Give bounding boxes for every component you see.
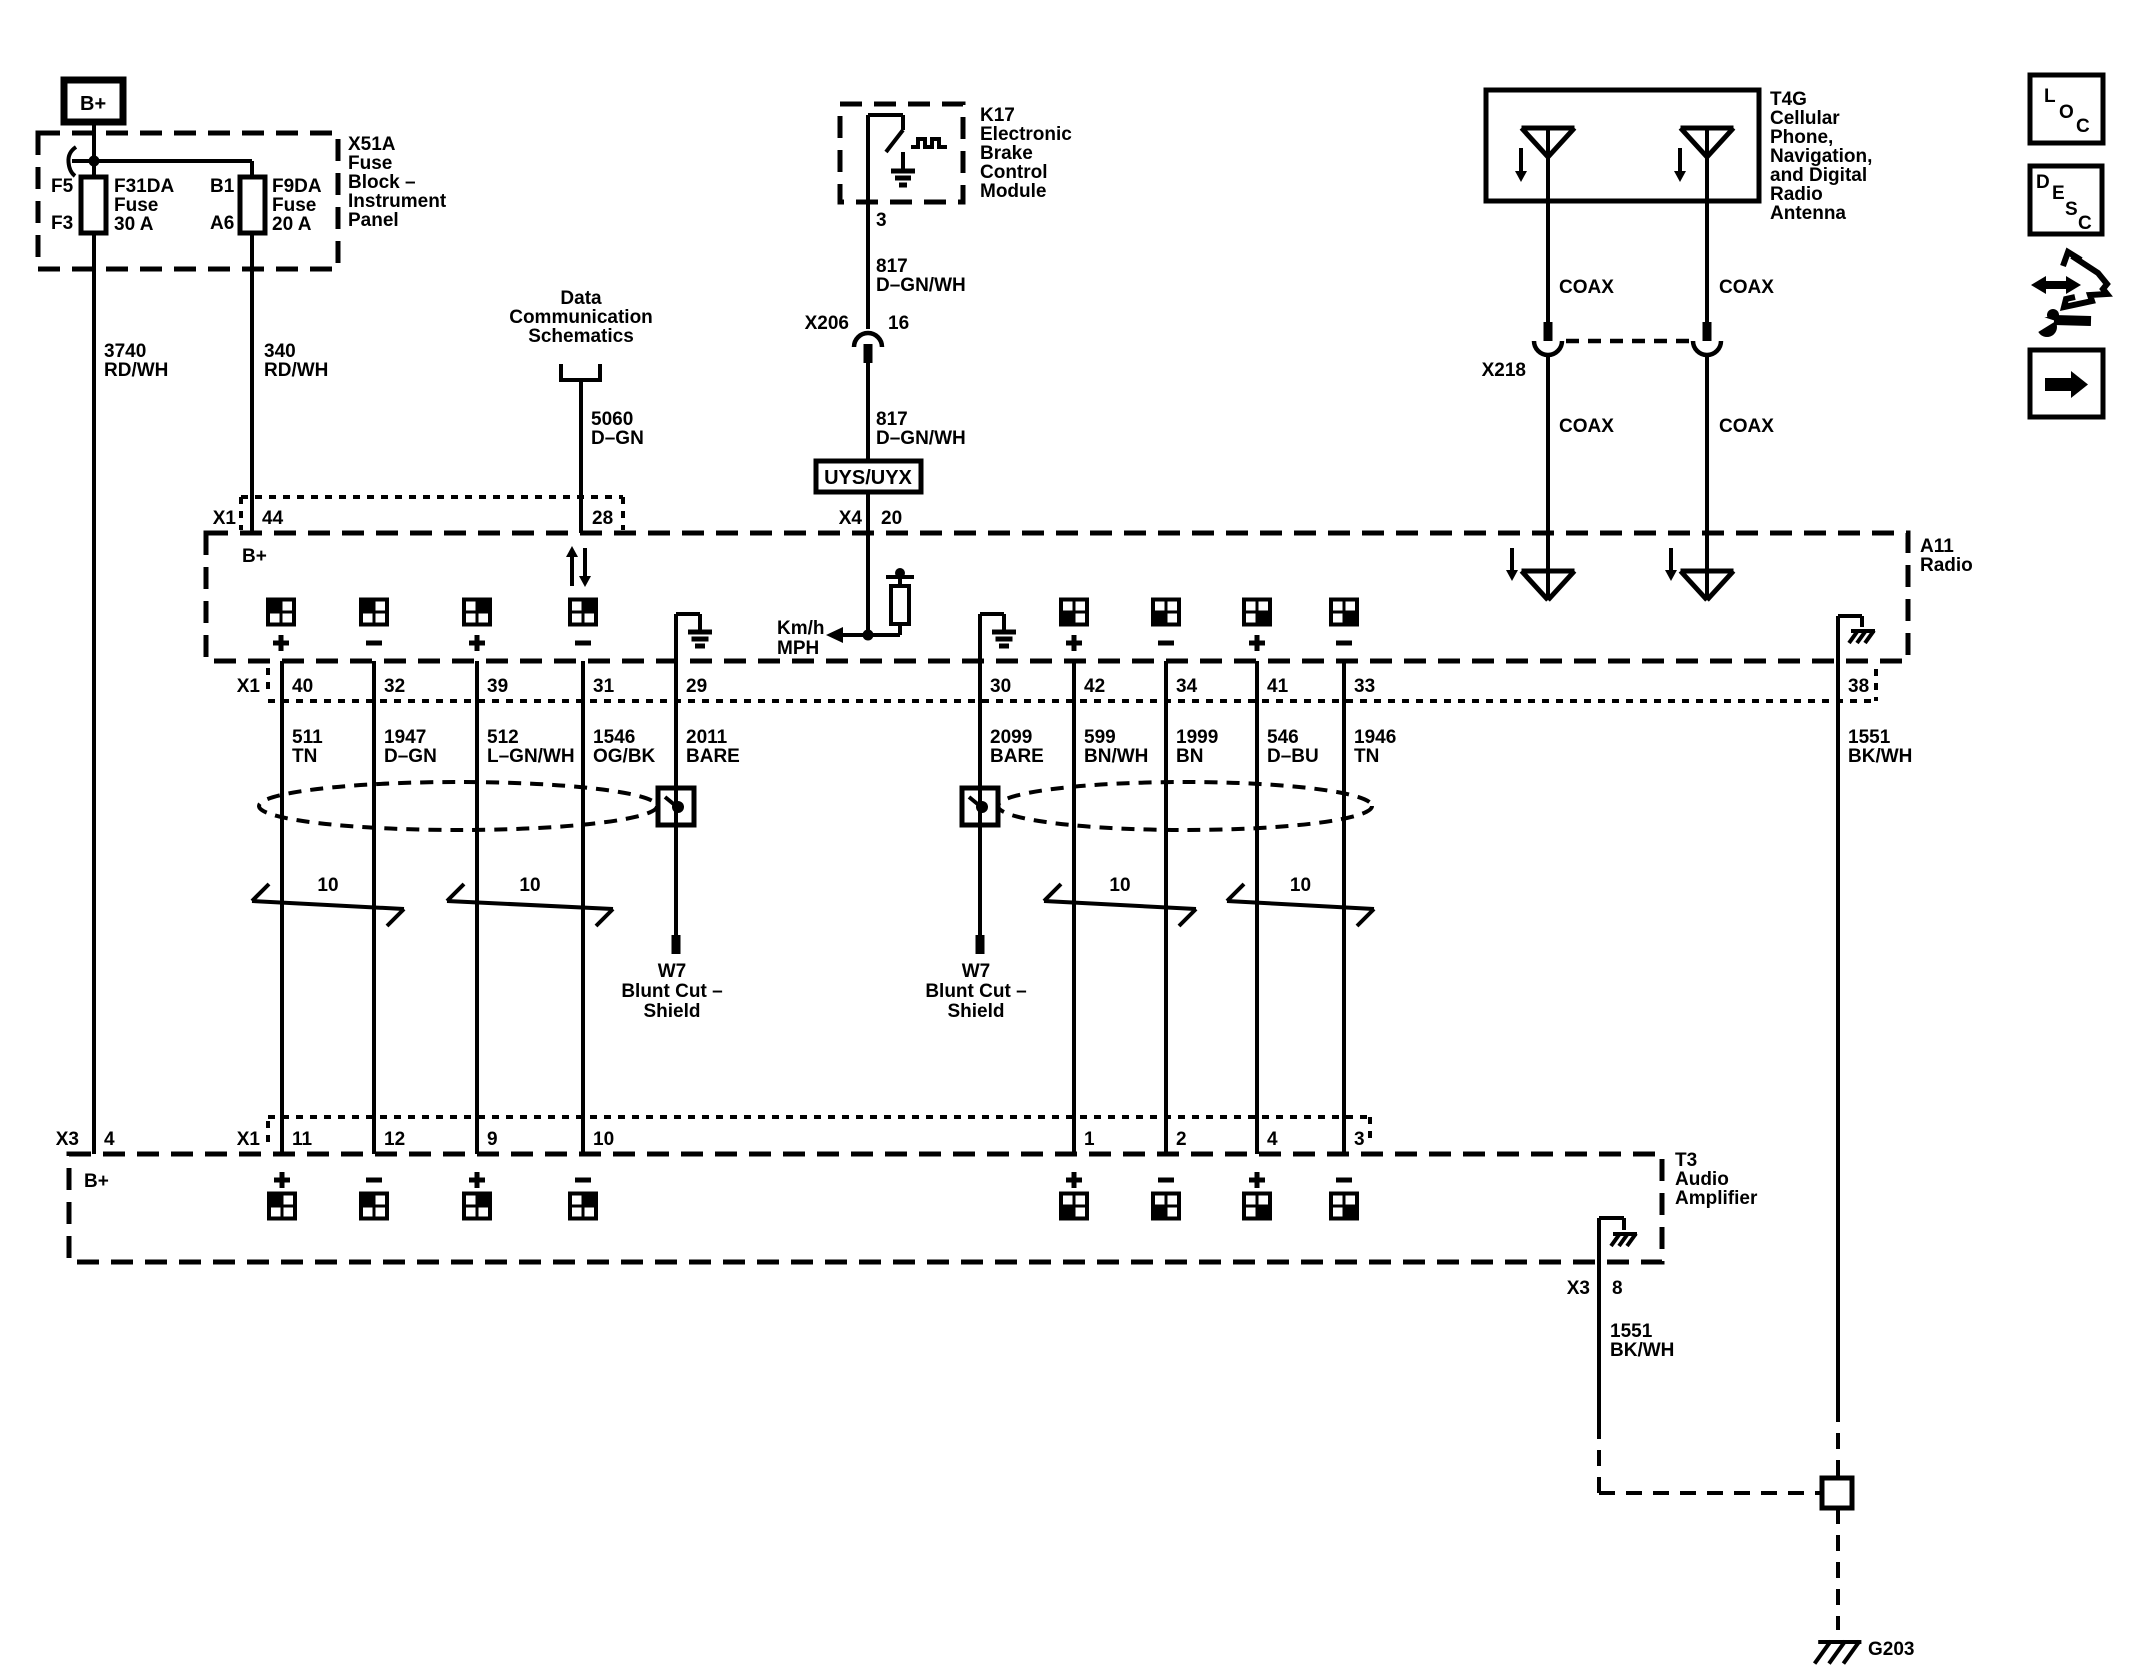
svg-text:Radio: Radio: [1770, 184, 1823, 205]
svg-text:D–GN/WH: D–GN/WH: [876, 428, 966, 449]
svg-text:COAX: COAX: [1559, 277, 1614, 298]
svg-text:COAX: COAX: [1559, 416, 1614, 437]
svg-text:C: C: [2076, 116, 2090, 137]
svg-text:1999: 1999: [1176, 727, 1218, 748]
svg-text:44: 44: [262, 508, 284, 529]
svg-text:32: 32: [384, 676, 405, 697]
svg-text:1551: 1551: [1848, 727, 1891, 748]
svg-text:29: 29: [686, 676, 707, 697]
svg-text:RD/WH: RD/WH: [104, 360, 168, 381]
svg-text:20: 20: [881, 508, 902, 529]
svg-text:D–GN: D–GN: [384, 746, 437, 767]
svg-text:2099: 2099: [990, 727, 1032, 748]
svg-text:8: 8: [1612, 1278, 1623, 1299]
svg-text:Module: Module: [980, 181, 1047, 202]
svg-text:K17: K17: [980, 105, 1015, 126]
svg-text:4: 4: [1267, 1129, 1278, 1150]
svg-text:Cellular: Cellular: [1770, 108, 1840, 129]
svg-text:A6: A6: [210, 213, 234, 234]
svg-text:BK/WH: BK/WH: [1610, 1340, 1674, 1361]
svg-text:Shield: Shield: [947, 1001, 1004, 1022]
svg-text:Panel: Panel: [348, 210, 399, 231]
svg-text:Audio: Audio: [1675, 1169, 1729, 1190]
svg-text:W7: W7: [962, 961, 991, 982]
svg-text:A11: A11: [1920, 536, 1954, 557]
svg-text:UYS/UYX: UYS/UYX: [824, 467, 912, 489]
svg-text:Instrument: Instrument: [348, 191, 447, 212]
svg-text:X218: X218: [1482, 360, 1526, 381]
svg-text:1551: 1551: [1610, 1321, 1653, 1342]
svg-text:C: C: [2078, 213, 2092, 234]
svg-text:Communication: Communication: [509, 307, 653, 328]
svg-text:Antenna: Antenna: [1770, 203, 1846, 224]
svg-text:D–BU: D–BU: [1267, 746, 1319, 767]
svg-text:340: 340: [264, 341, 296, 362]
svg-text:T3: T3: [1675, 1150, 1697, 1171]
svg-text:X1: X1: [213, 508, 237, 529]
svg-text:817: 817: [876, 409, 908, 430]
svg-text:39: 39: [487, 676, 508, 697]
svg-text:11: 11: [292, 1129, 313, 1150]
svg-text:X4: X4: [839, 508, 863, 529]
svg-text:Data: Data: [560, 288, 602, 309]
svg-text:MPH: MPH: [777, 638, 819, 659]
svg-text:10: 10: [1290, 875, 1311, 896]
svg-text:511: 511: [292, 727, 323, 748]
svg-text:Schematics: Schematics: [528, 326, 634, 347]
svg-text:B+: B+: [242, 546, 267, 567]
svg-text:TN: TN: [1354, 746, 1379, 767]
svg-text:D: D: [2036, 172, 2050, 193]
svg-text:Shield: Shield: [643, 1001, 700, 1022]
svg-text:Blunt Cut –: Blunt Cut –: [925, 981, 1026, 1002]
svg-text:L: L: [2044, 86, 2056, 107]
svg-text:546: 546: [1267, 727, 1299, 748]
svg-text:41: 41: [1267, 676, 1289, 697]
svg-text:Amplifier: Amplifier: [1675, 1188, 1758, 1209]
svg-text:W7: W7: [658, 961, 687, 982]
svg-text:F3: F3: [51, 213, 73, 234]
svg-text:BN/WH: BN/WH: [1084, 746, 1148, 767]
svg-text:F5: F5: [51, 176, 74, 197]
svg-text:12: 12: [384, 1129, 405, 1150]
svg-text:9: 9: [487, 1129, 498, 1150]
svg-text:BARE: BARE: [990, 746, 1044, 767]
svg-text:D–GN/WH: D–GN/WH: [876, 275, 966, 296]
svg-text:TN: TN: [292, 746, 317, 767]
svg-text:599: 599: [1084, 727, 1116, 748]
svg-text:10: 10: [317, 875, 338, 896]
svg-text:X1: X1: [237, 676, 261, 697]
svg-text:40: 40: [292, 676, 313, 697]
svg-text:X206: X206: [805, 313, 849, 334]
svg-text:512: 512: [487, 727, 519, 748]
svg-text:33: 33: [1354, 676, 1375, 697]
svg-text:B1: B1: [210, 176, 235, 197]
svg-text:42: 42: [1084, 676, 1105, 697]
svg-text:and Digital: and Digital: [1770, 165, 1867, 186]
svg-text:2011: 2011: [686, 727, 728, 748]
svg-text:1946: 1946: [1354, 727, 1396, 748]
svg-text:30: 30: [990, 676, 1011, 697]
svg-text:20 A: 20 A: [272, 214, 312, 235]
svg-text:3740: 3740: [104, 341, 146, 362]
svg-text:BK/WH: BK/WH: [1848, 746, 1912, 767]
svg-text:3: 3: [876, 210, 887, 231]
svg-text:COAX: COAX: [1719, 277, 1774, 298]
svg-text:30 A: 30 A: [114, 214, 154, 235]
svg-text:RD/WH: RD/WH: [264, 360, 328, 381]
svg-text:G203: G203: [1868, 1639, 1914, 1660]
svg-text:31: 31: [593, 676, 615, 697]
svg-text:L–GN/WH: L–GN/WH: [487, 746, 575, 767]
svg-text:X3: X3: [1567, 1278, 1590, 1299]
svg-text:38: 38: [1848, 676, 1869, 697]
svg-text:Km/h: Km/h: [777, 618, 825, 639]
svg-text:X3: X3: [56, 1129, 79, 1150]
svg-text:1: 1: [1084, 1129, 1095, 1150]
svg-text:Navigation,: Navigation,: [1770, 146, 1872, 167]
svg-text:X1: X1: [237, 1129, 261, 1150]
svg-text:Fuse: Fuse: [348, 153, 392, 174]
svg-text:Control: Control: [980, 162, 1048, 183]
svg-text:O: O: [2059, 102, 2074, 123]
svg-text:1546: 1546: [593, 727, 635, 748]
svg-text:Phone,: Phone,: [1770, 127, 1833, 148]
svg-text:Brake: Brake: [980, 143, 1033, 164]
svg-text:1947: 1947: [384, 727, 426, 748]
svg-text:16: 16: [888, 313, 909, 334]
svg-text:B+: B+: [84, 1171, 109, 1192]
svg-text:28: 28: [592, 508, 613, 529]
svg-text:10: 10: [519, 875, 540, 896]
svg-text:Electronic: Electronic: [980, 124, 1072, 145]
svg-text:10: 10: [593, 1129, 614, 1150]
svg-text:E: E: [2052, 183, 2065, 204]
svg-text:BN: BN: [1176, 746, 1203, 767]
svg-text:5060: 5060: [591, 409, 633, 430]
svg-text:BARE: BARE: [686, 746, 740, 767]
svg-text:D–GN: D–GN: [591, 428, 644, 449]
svg-text:S: S: [2065, 199, 2078, 220]
svg-text:Blunt Cut –: Blunt Cut –: [621, 981, 722, 1002]
svg-text:T4G: T4G: [1770, 89, 1807, 110]
svg-text:X51A: X51A: [348, 134, 396, 155]
svg-text:10: 10: [1109, 875, 1130, 896]
svg-text:Fuse: Fuse: [114, 195, 158, 216]
svg-text:OG/BK: OG/BK: [593, 746, 656, 767]
svg-text:F31DA: F31DA: [114, 176, 174, 197]
svg-text:B+: B+: [80, 93, 106, 115]
svg-text:34: 34: [1176, 676, 1198, 697]
svg-text:Fuse: Fuse: [272, 195, 316, 216]
svg-text:4: 4: [104, 1129, 115, 1150]
svg-text:Radio: Radio: [1920, 555, 1973, 576]
svg-text:COAX: COAX: [1719, 416, 1774, 437]
svg-text:F9DA: F9DA: [272, 176, 322, 197]
svg-text:Block –: Block –: [348, 172, 416, 193]
svg-text:3: 3: [1354, 1129, 1365, 1150]
svg-text:2: 2: [1176, 1129, 1187, 1150]
svg-text:817: 817: [876, 256, 908, 277]
